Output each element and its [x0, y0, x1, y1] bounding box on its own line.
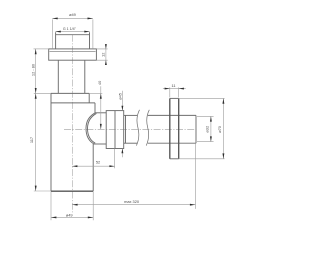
- arrows 11 dim: [165, 88, 170, 90]
- cup left wall: [50, 93, 52, 191]
- arrows max320: [72, 204, 77, 206]
- dim line 11: [163, 88, 186, 90]
- pipe top wall right of break: [148, 114, 196, 116]
- dim line ø45 upper: [121, 91, 123, 111]
- dim line ø49 top: [52, 17, 93, 19]
- svg-text:ø49: ø49: [66, 213, 73, 218]
- ext lines 12 dim: [96, 49, 107, 60]
- horizontal centerline: [64, 128, 197, 130]
- svg-text:ø32: ø32: [205, 126, 210, 133]
- svg-text:ø49: ø49: [69, 12, 76, 17]
- break curve left: [136, 110, 139, 146]
- arrows ø49 bottom: [51, 216, 56, 218]
- dim line ø49 bottom: [51, 216, 93, 218]
- dim line 52: [72, 165, 114, 167]
- tailpiece nut chamfer line: [50, 51, 96, 53]
- cone top link: [95, 112, 106, 114]
- ext line 12-80 bottom / 117 top: [34, 92, 51, 94]
- ext lines ø49 bottom: [51, 192, 93, 221]
- outlet nut facet line: [114, 111, 116, 149]
- svg-text:52: 52: [96, 160, 100, 165]
- svg-text:G 1 1/4": G 1 1/4": [63, 27, 77, 31]
- svg-text:11: 11: [171, 83, 175, 88]
- tailpiece nut: [49, 49, 97, 60]
- dim line 12 right of nut: [105, 44, 107, 65]
- flange top edge: [170, 97, 179, 99]
- ext flange top to ø70: [179, 97, 225, 99]
- wall flange left edge: [169, 98, 171, 158]
- break curve right: [146, 110, 149, 146]
- arrows ø49 top: [52, 17, 57, 19]
- ext lines for 11 dim: [170, 87, 179, 97]
- outlet nut: [106, 111, 124, 149]
- cone bottom link: [94, 143, 107, 145]
- arrows 12 dim: [105, 44, 107, 49]
- arrows 52: [72, 165, 77, 167]
- arrows G 1 1/4: [55, 31, 60, 33]
- dim line ø70: [222, 98, 224, 158]
- arrows 12-80: [35, 49, 37, 54]
- pipe bottom wall right of break: [148, 142, 196, 144]
- body top edge: [51, 92, 89, 94]
- ext line 52 right: [114, 149, 116, 169]
- ext line max320 right: [195, 144, 197, 209]
- collar right wall: [94, 103, 96, 113]
- arrows ø45: [121, 106, 123, 111]
- dim line ø45 lower: [121, 149, 123, 158]
- lower tailpipe: [58, 60, 85, 93]
- flange bottom edge: [170, 158, 179, 160]
- svg-text:max 320: max 320: [124, 199, 140, 204]
- pipe bottom wall left of break: [124, 142, 138, 144]
- ext line 40 top: [89, 92, 102, 94]
- dim line 12-80 / 117: [35, 49, 37, 191]
- svg-text:117: 117: [29, 137, 34, 143]
- arrows 117: [35, 93, 37, 98]
- svg-text:40: 40: [97, 80, 102, 85]
- dim line max 320: [72, 204, 195, 206]
- washer ring after nut: [125, 115, 127, 143]
- ext lines ø49 top: [52, 19, 93, 49]
- body right wall upper: [88, 93, 90, 103]
- dim line ø32: [210, 116, 212, 141]
- svg-text:ø70: ø70: [217, 125, 222, 133]
- svg-text:12 - 80: 12 - 80: [30, 63, 35, 76]
- cone inner arc: [88, 113, 97, 143]
- arrows ø32: [210, 116, 212, 121]
- cup bottom: [51, 190, 93, 192]
- dim line G 1 1/4: [55, 31, 89, 33]
- pipe top wall left of break: [124, 114, 138, 116]
- tailpiece thread pipe: [56, 32, 90, 49]
- ext line 12-80 top: [34, 48, 49, 50]
- vertical centerline: [71, 35, 73, 213]
- body inner shoulder line: [51, 102, 95, 104]
- arrows 40 dim: [100, 93, 102, 98]
- svg-text:ø45: ø45: [117, 93, 122, 100]
- cup right wall lower: [92, 144, 94, 191]
- wall flange right edge: [178, 98, 180, 158]
- ext line 117 bottom: [34, 190, 51, 192]
- svg-text:12: 12: [100, 53, 105, 57]
- ext flange bottom to ø70: [179, 158, 225, 160]
- ext lines for ø32: [197, 116, 214, 141]
- pipe end cap: [195, 115, 197, 143]
- cone outer arc: [86, 113, 95, 144]
- arrows ø70: [222, 98, 224, 103]
- dim line 40: [100, 86, 102, 129]
